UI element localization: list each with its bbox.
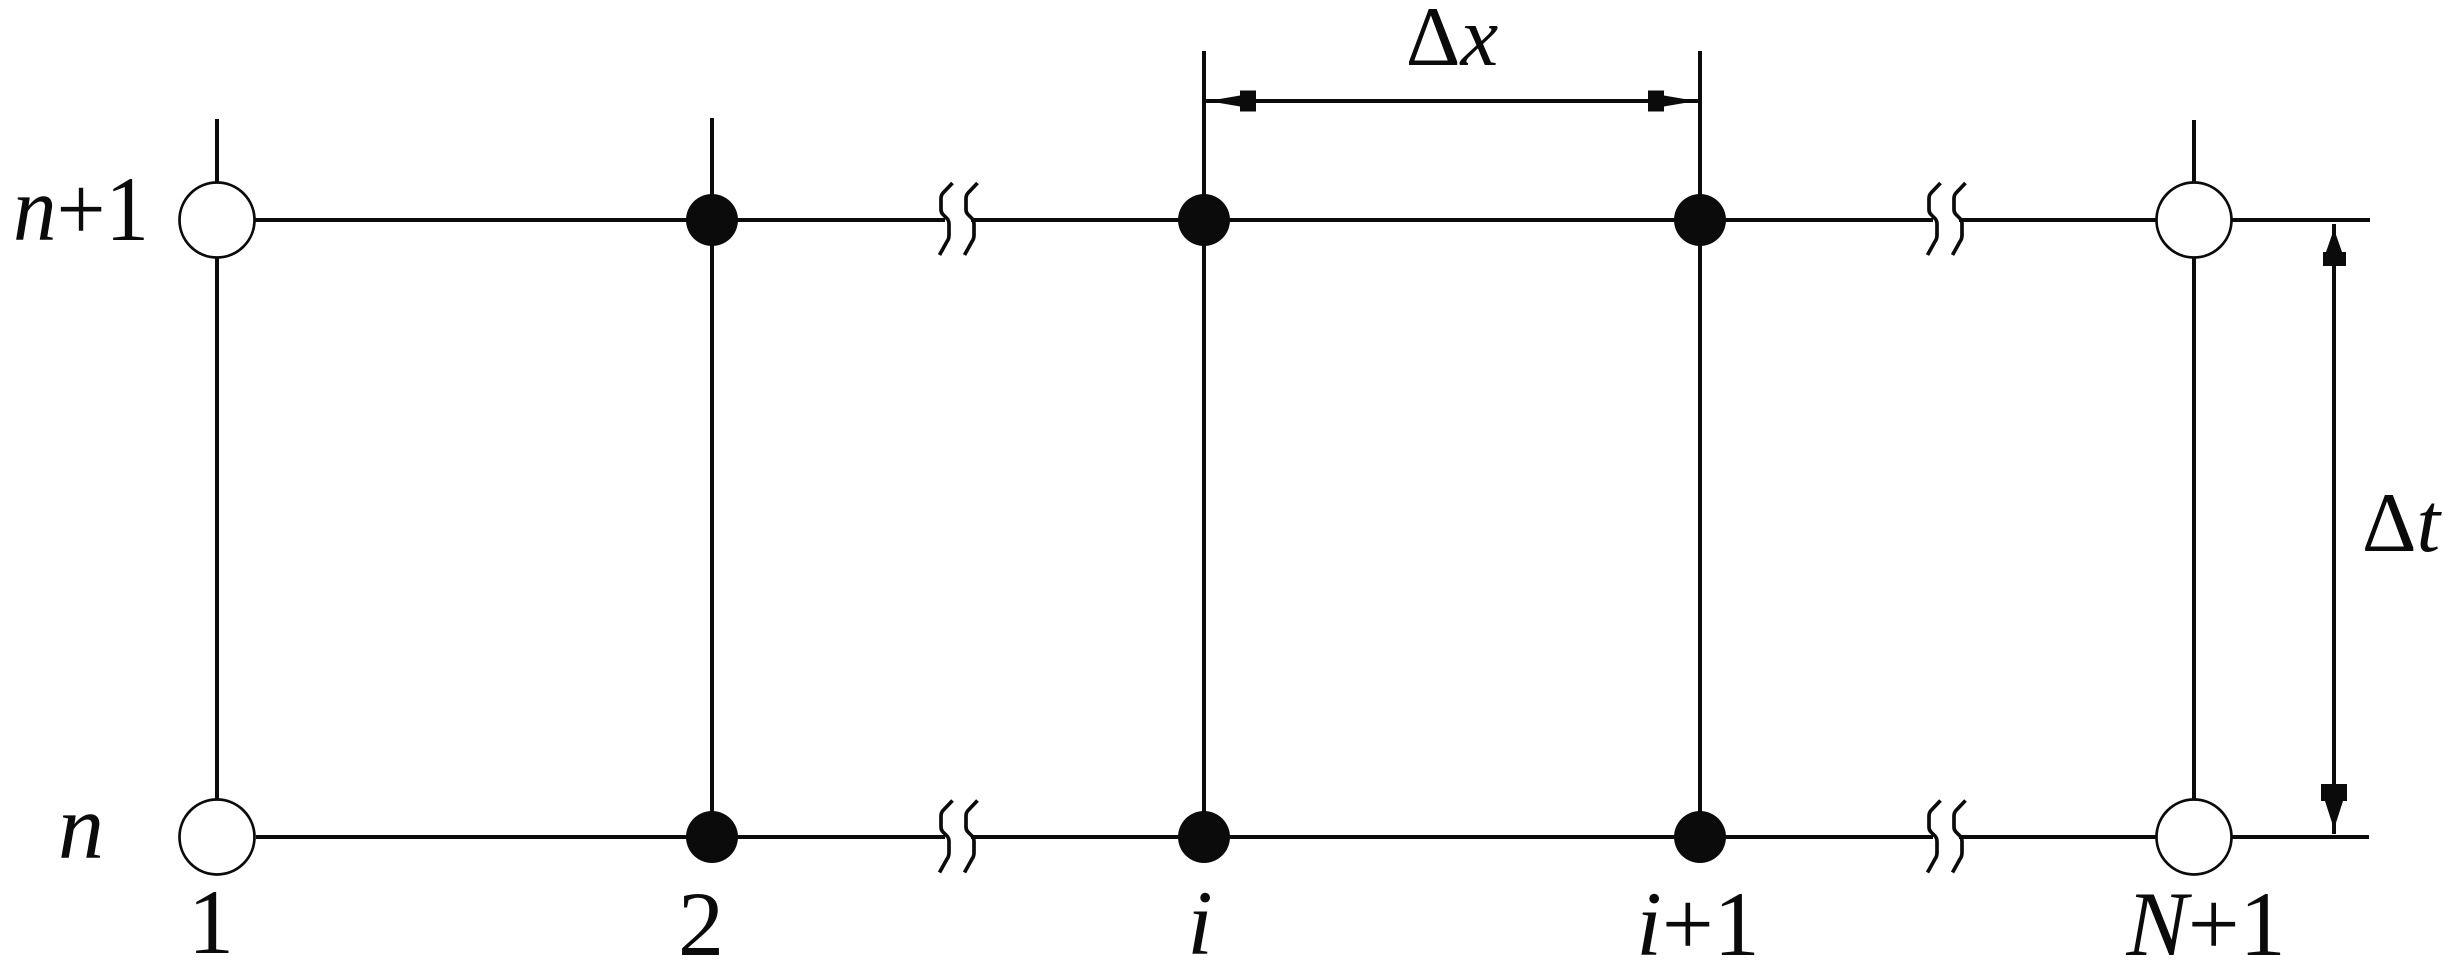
- svg-text:n+1: n+1: [13, 158, 149, 260]
- svg-text:Δx: Δx: [1406, 0, 1499, 84]
- svg-text:2: 2: [678, 873, 724, 975]
- svg-text:1: 1: [188, 871, 234, 973]
- svg-text:n: n: [58, 776, 104, 878]
- svg-text:i: i: [1187, 872, 1213, 974]
- svg-text:N+1: N+1: [2125, 873, 2285, 975]
- svg-text:Δt: Δt: [2362, 476, 2443, 570]
- svg-text:i+1: i+1: [1636, 873, 1759, 975]
